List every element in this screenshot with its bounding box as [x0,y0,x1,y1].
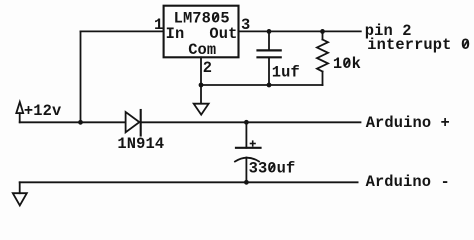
svg-text:2: 2 [203,59,212,77]
diode D1 cathode bar [140,110,142,136]
junction node C1 bottom [267,83,272,88]
polarity + mark on C2 [251,141,256,146]
svg-text:Arduino +: Arduino + [366,114,450,132]
svg-text:3: 3 [241,16,250,34]
wire ground bus from Com node to resistor bottom [201,84,323,86]
svg-text:+12v: +12v [24,102,61,120]
ground terminal arrow bottom left [13,193,27,205]
junction node C2 top [244,120,249,125]
junction node at +12v / pin1 wire [78,120,83,125]
slash on zero of LM7805 [213,13,218,21]
slash on zero of interrupt 0 [463,40,468,48]
wire bottom rail Arduino - [20,181,358,183]
wire pin 1 to regulator In [81,30,164,32]
wire capacitor C1 top lead [268,31,270,50]
junction node Com ground bus [199,83,204,88]
junction node C2 bottom [244,180,249,185]
svg-text:Com: Com [188,41,216,59]
op-amp U1 regulator LM7805 box [164,6,239,58]
wire +12v terminal lead [19,113,21,122]
capacitor C1 1uf plates [258,50,281,57]
wire +12v rail to diode anode [20,121,126,123]
wire vertical from +12v rail up to pin 1 [80,31,82,122]
wire capacitor C2 bottom lead [245,158,247,183]
diode D1 triangle [126,112,140,132]
svg-text:1: 1 [154,16,163,34]
svg-text:Arduino -: Arduino - [366,173,450,191]
svg-text:1uf: 1uf [272,63,300,81]
capacitor C2 330uf top plate [236,147,261,149]
wire capacitor C1 bottom lead [268,58,270,86]
junction node C1 top [267,29,272,34]
svg-text:1N914: 1N914 [117,135,164,153]
wire regulator Com pin down to ground [200,57,202,103]
wire resistor R1 bottom lead [322,72,324,86]
wire resistor R1 top lead [322,31,324,39]
wire diode cathode to Arduino + [141,121,361,123]
svg-text:In: In [166,25,185,43]
terminal arrow +12v [16,102,23,113]
wire bottom-left terminal lead [19,182,21,193]
wire capacitor C2 top lead [245,122,247,148]
ground symbol under Com [194,104,209,115]
slash on zero of 10k [345,59,350,67]
junction node R1 top [320,29,325,34]
svg-text:interrupt 0: interrupt 0 [367,36,470,54]
resistor R1 10k zigzag [317,40,328,72]
wire pin 3 from regulator Out to pin 2 label [239,30,361,32]
capacitor C2 330uf curved bottom plate [235,158,259,162]
slash on zero of 330uf [270,164,275,172]
svg-text:Out: Out [209,25,237,43]
